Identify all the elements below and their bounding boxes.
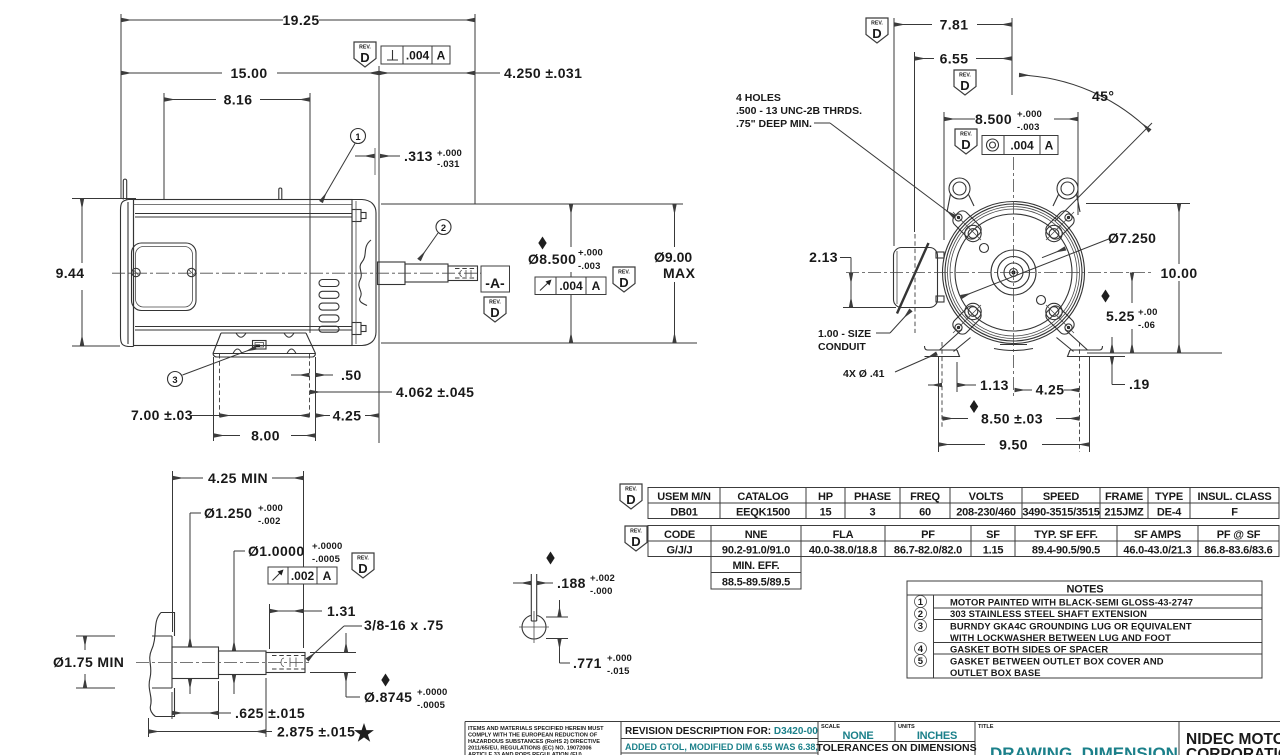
feature control frame runout .002 A [268,567,337,584]
dimension .313 +.000 -.031 [355,148,462,175]
foot hole centerlines front view [941,342,943,428]
motor centerline [112,272,497,274]
svg-text:1.15: 1.15 [983,545,1004,557]
svg-text:-.06: -.06 [1138,320,1155,331]
svg-text:USEM M/N: USEM M/N [657,491,711,503]
svg-text:.313: .313 [404,148,433,164]
svg-text:-.003: -.003 [1017,122,1040,133]
dimension 7.00 ±.03 [131,407,310,423]
svg-text:-A-: -A- [485,275,505,291]
dimension dia 7.250 bolt circle [961,230,1156,297]
svg-text:ITEMS AND MATERIALS SPECIFIED: ITEMS AND MATERIALS SPECIFIED HEREIN MUS… [468,726,604,732]
svg-text:MAX: MAX [663,265,696,281]
datum feature symbol -A- [481,266,510,292]
svg-text:7.00 ±.03: 7.00 ±.03 [131,407,193,423]
lifting lug right [1053,178,1080,212]
svg-text:EEQK1500: EEQK1500 [736,507,790,519]
svg-text:60: 60 [919,507,931,519]
REV D flag table 2 [625,526,647,551]
svg-text:4.25: 4.25 [333,408,362,424]
svg-text:9.44: 9.44 [56,265,85,281]
tie rod top [135,210,366,222]
lifting eye pin left [123,179,126,199]
motor body side view outline [121,200,353,347]
dimension 2.13 [809,249,896,308]
svg-text:3490-3515/3515: 3490-3515/3515 [1022,507,1099,519]
svg-text:INCHES: INCHES [917,730,957,742]
svg-text:TOLERANCES ON DIMENSIONS: TOLERANCES ON DIMENSIONS [816,742,976,754]
svg-text:GASKET BETWEEN OUTLET BOX COVE: GASKET BETWEEN OUTLET BOX COVER AND [950,656,1164,667]
svg-text:1: 1 [918,597,924,608]
svg-text:.500 - 13 UNC-2B THRDS.: .500 - 13 UNC-2B THRDS. [736,105,862,117]
svg-text:6.55: 6.55 [940,51,969,67]
svg-text:+.000: +.000 [607,653,632,664]
svg-text:SF: SF [986,529,1000,541]
svg-text:HAZARDOUS SUBSTANCES (RoHS 2): HAZARDOUS SUBSTANCES (RoHS 2) DIRECTIVE [468,739,600,745]
outlet box [132,243,197,311]
balloon 3 leader [168,348,257,387]
svg-text:15.00: 15.00 [230,65,267,81]
foot front view right [1057,330,1103,357]
svg-text:86.7-82.0/82.0: 86.7-82.0/82.0 [894,545,962,557]
svg-text:-.003: -.003 [578,261,601,272]
dimension .19 foot thickness [1087,337,1222,392]
svg-text:Ø9.00: Ø9.00 [654,249,692,265]
base side view [213,333,316,357]
svg-text:PF: PF [921,529,935,541]
REV D flag right of runout frame [352,553,374,578]
dimension 4.062 ±.045 [310,384,474,400]
svg-text:Ø7.250: Ø7.250 [1108,230,1156,246]
base saddle under rim [994,345,1033,351]
svg-text:A: A [437,49,446,63]
svg-text:A: A [592,279,601,293]
dimension 15.00 body length [121,65,379,443]
motor rating table USEM [648,488,1279,519]
dimension 8.50 ±.03 [943,400,1080,427]
svg-text:208-230/460: 208-230/460 [956,507,1016,519]
scale and units cells [816,724,976,755]
feature control frame perpendicularity .004 A [381,46,450,64]
dimension 4.25 [316,408,380,424]
REV D flag table 1 [620,484,642,509]
feature control frame runout .004 A [535,277,606,295]
NOTES table [907,581,1262,678]
svg-text:MOTOR PAINTED WITH BLACK-SEMI: MOTOR PAINTED WITH BLACK-SEMI GLOSS-43-2… [950,597,1193,608]
svg-text:86.8-83.6/83.6: 86.8-83.6/83.6 [1204,545,1272,557]
svg-text:8.00: 8.00 [251,428,280,444]
svg-text:4.062 ±.045: 4.062 ±.045 [396,384,474,400]
svg-text:19.25: 19.25 [282,12,319,28]
label 3/8-16 x .75 tapped hole [307,617,444,660]
svg-text:CATALOG: CATALOG [737,491,788,503]
dimension 8.16 [164,92,310,334]
REV D flag below datum [484,297,506,322]
grounding lug clip [253,341,267,350]
clamp ear upper-right [1043,208,1076,241]
title cell DRAWING, DIMENSION [978,724,1178,755]
svg-text:.004: .004 [1010,139,1034,153]
dimension 1.31 thread length [270,603,356,649]
dimension 6.55 [915,51,1013,334]
extension lines right of side view [381,203,683,205]
clamp ear lower-left [950,303,983,336]
REV D flag below 6.55 [954,70,976,95]
svg-text:-.002: -.002 [258,516,281,527]
svg-text:MIN. EFF.: MIN. EFF. [732,560,779,572]
dimension dia 1.75 MIN [53,636,124,688]
svg-text:.19: .19 [1129,376,1150,392]
svg-text:4X Ø .41: 4X Ø .41 [843,368,885,380]
svg-text:DE-4: DE-4 [1157,507,1182,519]
svg-text:+.0000: +.0000 [417,687,448,698]
svg-text:+.0000: +.0000 [312,541,343,552]
svg-text:INSUL. CLASS: INSUL. CLASS [1198,491,1272,503]
svg-text:45°: 45° [1092,88,1114,104]
svg-text:.75" DEEP MIN.: .75" DEEP MIN. [736,118,812,130]
dimension 9.44 frame height [56,199,136,347]
foot front view left [925,330,971,357]
lug pin mid [279,188,282,200]
svg-text:1.00 - SIZE: 1.00 - SIZE [818,328,871,340]
svg-text:TYP. SF EFF.: TYP. SF EFF. [1034,529,1098,541]
drain holes [980,244,989,253]
svg-text:4.250 ±.031: 4.250 ±.031 [504,65,582,81]
svg-text:SF AMPS: SF AMPS [1134,529,1181,541]
svg-text:4.25: 4.25 [1036,382,1065,398]
svg-text:CODE: CODE [664,529,695,541]
svg-text:A: A [323,569,332,583]
svg-text:89.4-90.5/90.5: 89.4-90.5/90.5 [1032,545,1100,557]
dimension .771 +.000 -.015 keyseat depth [546,600,632,677]
revision description cell [621,726,818,755]
svg-text:4 HOLES: 4 HOLES [736,92,781,104]
shaft side view [378,262,478,285]
clamp ear lower-right [1043,303,1076,336]
svg-text:FLA: FLA [833,529,854,541]
svg-text:OUTLET BOX BASE: OUTLET BOX BASE [950,667,1041,678]
label 4X dia .41 [843,354,937,381]
svg-text:NONE: NONE [843,730,874,742]
svg-text:+.000: +.000 [437,148,462,159]
svg-text:-.0005: -.0005 [417,700,446,711]
feature control frame concentricity .004 A [982,136,1058,155]
dimension 1.13 [928,377,1009,393]
bell flange wavy break [359,240,371,306]
svg-text:CONDUIT: CONDUIT [818,341,866,353]
svg-text:4: 4 [918,644,924,655]
dimension dia .8745 +.0000 -.0005 [310,633,448,711]
svg-text:.004: .004 [406,49,430,63]
45 degree arc dimension [1019,75,1152,221]
tie rod bottom [135,323,366,335]
svg-text:Ø1.75 MIN: Ø1.75 MIN [53,654,124,670]
dimension 8.00 [214,428,316,444]
dimension dia 8.500 vertical [526,204,615,343]
svg-text:.002: .002 [291,569,315,583]
svg-text:9.50: 9.50 [999,437,1028,453]
svg-text:REVISION DESCRIPTION FOR: D342: REVISION DESCRIPTION FOR: D3420-00 [625,726,818,737]
svg-text:.188: .188 [557,575,586,591]
svg-text:ADDED GTOL, MODIFIED DIM 6.55: ADDED GTOL, MODIFIED DIM 6.55 WAS 6.38, [625,742,818,752]
svg-text:DRAWING, DIMENSION: DRAWING, DIMENSION [990,744,1178,755]
dimension 4.25 foot hole [1015,382,1080,398]
svg-text:-.031: -.031 [437,159,460,170]
svg-text:F: F [1231,507,1238,519]
svg-text:3: 3 [870,507,876,519]
dimension .625 ±.015 [172,681,305,721]
svg-text:PHASE: PHASE [854,491,891,503]
REV D flag at perpendicularity frame [354,42,376,67]
dimension 2.875 ±.015 star [149,678,374,742]
clamp ear upper-left with bolt [950,208,983,241]
svg-text:UNITS: UNITS [898,724,915,730]
svg-text:2.13: 2.13 [809,249,838,265]
RoHS compliance note [468,726,604,755]
balloon 2 leader [419,220,451,261]
dimension dia 9.00 MAX vertical [652,204,696,343]
svg-text:A: A [1045,139,1054,153]
svg-text:.50: .50 [341,367,362,383]
note 4 HOLES .500-13 UNC-2B THRDS [736,92,955,217]
svg-text:8.500: 8.500 [975,111,1012,127]
svg-text:HP: HP [818,491,833,503]
svg-text:8.16: 8.16 [224,92,253,108]
dimension dia 1.250 +.000 -.002 [190,503,283,694]
dimension 8.500 +.000 -.003 rabbet [944,109,1078,240]
C-face bracket right end [352,200,376,346]
svg-text:3/8-16 x .75: 3/8-16 x .75 [364,617,444,633]
dimension dia 1.0000 +.0000 -.0005 [234,541,343,694]
svg-text:PF @ SF: PF @ SF [1217,529,1261,541]
shaft detail drawing [136,613,312,717]
svg-text:+.000: +.000 [1017,109,1042,120]
dimension .50 [291,367,362,383]
svg-text:2011/65/EU, REGULATIONS (EC) N: 2011/65/EU, REGULATIONS (EC) NO. 1907200… [468,746,592,752]
dimension 5.25 +.00 -.06 [1101,273,1162,354]
svg-text:-.0005: -.0005 [312,554,341,565]
svg-text:8.50 ±.03: 8.50 ±.03 [981,411,1043,427]
svg-text:15: 15 [820,507,832,519]
svg-text:DB01: DB01 [670,507,697,519]
MIN EFF sub-table [711,557,801,590]
svg-text:2: 2 [918,609,923,620]
company name NIDEC MOTOR CORPORATION [1186,731,1280,755]
svg-text:FRAME: FRAME [1105,491,1143,503]
svg-text:+.002: +.002 [590,573,615,584]
conduit box front view [894,243,945,314]
svg-text:TITLE: TITLE [978,724,994,730]
svg-text:5: 5 [918,656,924,667]
svg-text:90.2-91.0/91.0: 90.2-91.0/91.0 [722,545,790,557]
svg-text:TYPE: TYPE [1155,491,1183,503]
svg-text:SCALE: SCALE [821,724,840,730]
svg-text:Ø.8745: Ø.8745 [364,689,412,705]
svg-text:+.000: +.000 [578,248,603,259]
label 1.00 - SIZE CONDUIT [818,310,911,353]
REV D flag right of runout frame [613,267,635,292]
shaft end circle with keyway [519,574,549,643]
svg-text:.771: .771 [573,655,602,671]
REV D flag left of concentricity frame [955,129,977,154]
foot hole centerlines [219,354,221,419]
svg-text:WITH LOCKWASHER BETWEEN LUG AN: WITH LOCKWASHER BETWEEN LUG AND FOOT [950,632,1171,643]
svg-text:FREQ: FREQ [910,491,940,503]
svg-text:Ø8.500: Ø8.500 [528,251,576,267]
svg-text:GASKET BOTH SIDES OF SPACER: GASKET BOTH SIDES OF SPACER [950,644,1108,655]
svg-text:303 STAINLESS STEEL SHAFT EXTE: 303 STAINLESS STEEL SHAFT EXTENSION [950,608,1147,619]
svg-text:215JMZ: 215JMZ [1104,507,1144,519]
svg-text:46.0-43.0/21.3: 46.0-43.0/21.3 [1123,545,1191,557]
dimension 9.50 [939,437,1090,453]
svg-text:2.875 ±.015: 2.875 ±.015 [277,724,355,740]
svg-text:Ø1.0000: Ø1.0000 [248,543,305,559]
svg-text:88.5-89.5/89.5: 88.5-89.5/89.5 [722,577,790,589]
svg-text:1.31: 1.31 [327,603,356,619]
svg-text:.625 ±.015: .625 ±.015 [235,705,305,721]
svg-text:-.000: -.000 [590,586,613,597]
svg-text:10.00: 10.00 [1160,265,1197,281]
svg-text:Ø1.250: Ø1.250 [204,505,252,521]
svg-text:3: 3 [172,374,177,385]
svg-text:SPEED: SPEED [1043,491,1080,503]
svg-text:3: 3 [918,621,923,632]
svg-text:5.25: 5.25 [1106,308,1135,324]
svg-text:2: 2 [441,222,446,233]
front view centerlines [846,272,1152,274]
balloon 1 leader [321,129,366,203]
svg-text:BURNDY GKA4C GROUNDING LUG OR: BURNDY GKA4C GROUNDING LUG OR EQUIVALENT [950,621,1192,632]
dimension 7.81 [894,17,1012,247]
svg-text:NNE: NNE [745,529,768,541]
motor front view circles [943,202,1085,344]
svg-text:NOTES: NOTES [1067,584,1104,596]
dimension 19.25 overall length [121,12,475,204]
svg-text:.004: .004 [559,279,583,293]
lifting lug left [947,178,974,212]
svg-text:+.00: +.00 [1138,307,1158,318]
svg-text:CORPORATION: CORPORATION [1186,746,1280,755]
REV D flag left of 7.81 [866,18,888,43]
dimension 4.250 ±.031 shaft extension [379,65,582,81]
svg-text:1: 1 [355,131,360,142]
svg-text:-.015: -.015 [607,666,630,677]
dimension 4.25 MIN [173,470,304,648]
svg-text:4.25 MIN: 4.25 MIN [208,470,268,486]
svg-text:7.81: 7.81 [940,17,969,33]
svg-text:G/J/J: G/J/J [667,545,693,557]
svg-text:1.13: 1.13 [980,377,1009,393]
dimension .188 +.002 -.000 key width [513,552,615,598]
svg-text:COMPLY WITH THE EUROPEAN REDUC: COMPLY WITH THE EUROPEAN REDUCTION OF [468,733,598,739]
dimension 10.00 overall height [1086,204,1204,354]
svg-text:40.0-38.0/18.8: 40.0-38.0/18.8 [809,545,877,557]
vent slots [319,280,339,333]
performance table CODE [648,526,1279,557]
svg-text:VOLTS: VOLTS [969,491,1004,503]
svg-text:+.000: +.000 [258,503,283,514]
